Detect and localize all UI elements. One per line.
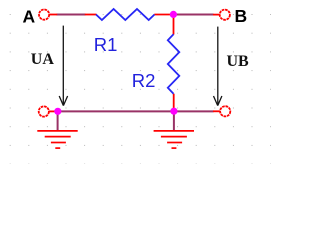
resistor R2 bottom pin xyxy=(173,94,175,112)
arrow UB (voltage arrow, points down) xyxy=(214,27,222,106)
ground right xyxy=(154,131,194,148)
resistor R1 right pin xyxy=(154,14,170,16)
junction dot bottom-left node xyxy=(54,108,61,115)
svg-text:B: B xyxy=(235,6,248,26)
wire left ground stem xyxy=(57,111,59,130)
grid dots (decorative) xyxy=(10,14,271,165)
resistor R1 zigzag body xyxy=(96,9,155,20)
terminal A circle xyxy=(39,10,49,20)
svg-text:UB: UB xyxy=(227,53,250,70)
terminal B pin xyxy=(213,14,220,16)
wire bottom rail xyxy=(58,110,214,112)
wire top-right junction to B xyxy=(173,14,213,16)
wire right ground stem xyxy=(173,111,175,130)
bottom-right terminal circle xyxy=(220,106,230,116)
bottom-left terminal circle xyxy=(39,106,49,116)
bottom-left terminal pin xyxy=(49,110,55,112)
terminal B circle xyxy=(220,10,230,20)
bottom-right terminal pin xyxy=(213,110,220,112)
svg-text:A: A xyxy=(23,7,36,27)
svg-text:UA: UA xyxy=(31,51,55,68)
resistor R1 left pin xyxy=(85,14,97,16)
junction dot bottom-right node xyxy=(170,108,177,115)
arrow UA (voltage arrow, points down) xyxy=(59,26,67,106)
svg-text:R1: R1 xyxy=(94,34,118,55)
terminal A pin xyxy=(49,14,57,16)
resistor R2 top pin xyxy=(173,15,175,35)
ground left xyxy=(37,131,77,148)
junction dot top node xyxy=(170,11,177,18)
wire top-left A to R1 xyxy=(57,14,86,16)
svg-text:R2: R2 xyxy=(132,70,156,91)
resistor R2 zigzag body xyxy=(168,34,180,93)
